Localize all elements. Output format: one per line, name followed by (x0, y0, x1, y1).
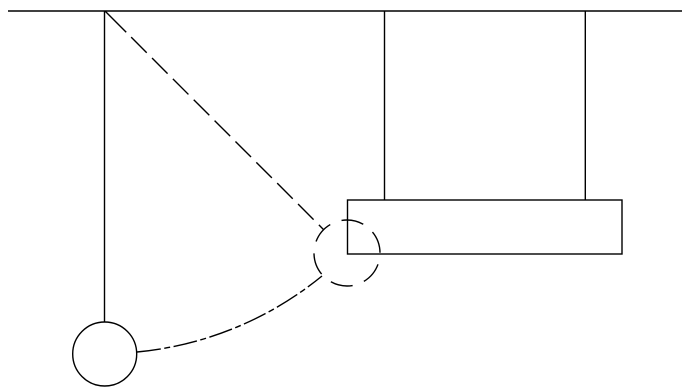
right hanger string (584, 11, 586, 200)
left hanger string (384, 11, 386, 200)
pendulum string raised position (dashed) (105, 11, 324, 230)
swing trajectory arc (dash-dot) (137, 276, 322, 352)
pendulum ball (73, 322, 137, 386)
ceiling line (8, 10, 682, 12)
pendulum ball raised position (dashed circle) (314, 220, 380, 286)
block (348, 200, 623, 254)
pendulum string (vertical) (104, 11, 106, 322)
